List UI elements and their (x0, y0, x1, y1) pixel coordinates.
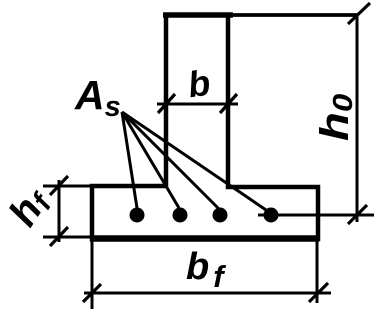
dimension b right tick (220, 94, 237, 113)
h0 bottom tick (348, 205, 367, 224)
svg-text:As: As (74, 72, 121, 123)
flange bottom thick edge (90, 235, 319, 242)
dimension hf line (58, 180, 61, 242)
rebar dot 3 (213, 208, 228, 223)
bf right tick (309, 283, 328, 302)
dimension b left tick (158, 94, 175, 113)
svg-text:h0: h0 (312, 94, 358, 141)
h0 top tick (348, 3, 370, 24)
dimension b line (157, 103, 238, 106)
bf right extension line (316, 240, 319, 303)
bf left extension line (91, 240, 94, 309)
hf top extension line (43, 185, 92, 188)
bf left tick (83, 284, 101, 302)
svg-text:b: b (185, 62, 212, 106)
hf bottom extension line (43, 236, 92, 239)
svg-text:bf: bf (186, 246, 226, 294)
h0 top extension line (233, 13, 358, 17)
web top edge (163, 12, 233, 18)
leader to rebar 2 (122, 112, 179, 208)
leader to rebar 4 (122, 112, 269, 212)
dimension bf line (84, 292, 331, 295)
hf top tick (50, 176, 68, 195)
rebar dot 2 (173, 208, 188, 223)
leader to rebar 1 (122, 112, 137, 208)
beam section outline (web + bottom flange) (92, 13, 318, 239)
hf bottom tick (50, 227, 68, 246)
dimension h0 line (356, 14, 359, 222)
rebar dot 1 (130, 208, 145, 223)
h0 bottom extension line at rebar level (258, 214, 374, 217)
rebar dot 4 (264, 208, 279, 223)
leader to rebar 3 (122, 112, 219, 209)
